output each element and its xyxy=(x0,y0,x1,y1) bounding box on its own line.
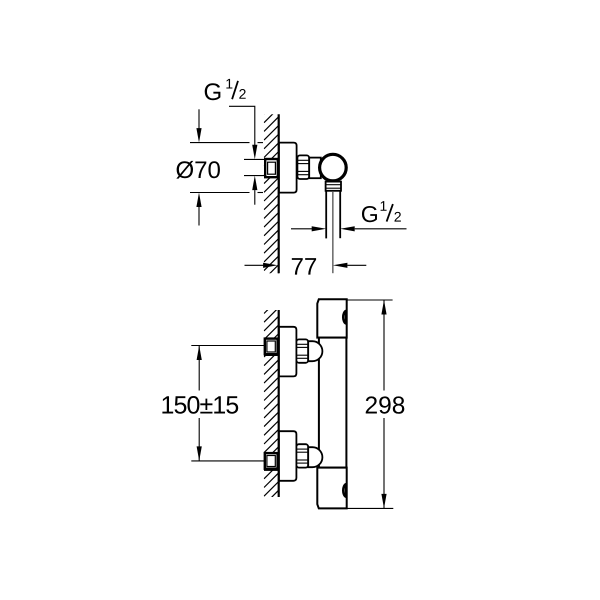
lower union nut (bottom view) xyxy=(296,444,308,467)
upper escutcheon (bottom view) xyxy=(279,327,296,377)
dimension 150±15 extension line top xyxy=(191,345,265,347)
dimension 298 dimension line xyxy=(383,300,385,508)
thermostat bar body xyxy=(319,338,347,468)
wall hatching (bottom view) xyxy=(264,298,280,505)
wall line (top view) xyxy=(278,114,280,273)
lower cone connector xyxy=(308,447,322,467)
dimension Ø70 dimension line with arrows xyxy=(198,109,200,225)
thermostat bar top cap xyxy=(317,299,346,337)
dimension 150±15 dimension line xyxy=(198,346,200,461)
lower escutcheon (bottom view) xyxy=(279,431,296,481)
pipe centerline xyxy=(332,192,334,273)
union nut (top view) xyxy=(297,155,309,179)
shower outlet elbow circle xyxy=(320,154,347,181)
G 1/2 arrow up to nut bottom xyxy=(252,176,257,191)
valve body (top view) xyxy=(309,158,321,179)
wall hatching (top view) xyxy=(264,98,280,288)
upper wall square nut (bottom view) xyxy=(265,339,278,355)
hose thread pipe xyxy=(326,191,340,239)
label G 1/2 (right) xyxy=(362,201,401,222)
escutcheon Ø70 (top view) xyxy=(279,143,297,193)
upper union nut (bottom view) xyxy=(296,339,308,362)
label 298 xyxy=(366,396,405,413)
wall union square nut (top view) xyxy=(265,159,278,177)
dimension 150±15 extension line bottom xyxy=(191,460,265,462)
label 77 xyxy=(292,258,316,275)
label 150±15 xyxy=(162,396,238,414)
leader line from G 1/2 to union nut xyxy=(229,106,255,145)
dimension 298 extension line top xyxy=(347,299,393,301)
dimension Ø70 extension line bottom xyxy=(190,192,263,194)
label G 1/2 (top) xyxy=(205,79,246,100)
upper cone connector xyxy=(308,341,322,361)
dimension Ø70 extension line top xyxy=(190,142,263,144)
lower wall square nut (bottom view) xyxy=(265,453,278,469)
dimension 77 xyxy=(245,264,264,266)
dimension 298 extension line bottom xyxy=(347,507,394,509)
top knob ellipse xyxy=(343,311,346,324)
G 1/2 extension lines from wall nut xyxy=(244,159,265,175)
label Ø70 xyxy=(176,161,220,179)
bottom knob ellipse xyxy=(343,484,346,497)
G 1/2 arrow down to nut top xyxy=(252,145,257,160)
dimension G 1/2 (pipe) dimension line xyxy=(291,228,312,230)
square nut inner face xyxy=(268,162,276,174)
wall line (bottom view) xyxy=(278,310,280,497)
thermostat bar bottom cap xyxy=(317,468,346,509)
hose connection collar below elbow xyxy=(326,182,341,191)
